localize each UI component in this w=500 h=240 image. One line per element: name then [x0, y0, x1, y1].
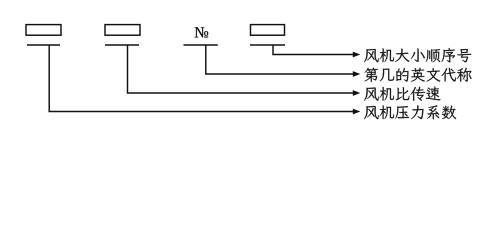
- label row4 风机压力系数: [364, 105, 456, 119]
- label row3 风机比传速: [364, 87, 441, 101]
- underline 1: [27, 44, 60, 46]
- underline 2: [105, 44, 139, 46]
- wire 1 (box1 to row4): [49, 45, 360, 114]
- label row1 风机大小顺序号: [364, 48, 471, 62]
- label row2 第几的英文代称: [364, 68, 471, 82]
- box 4: [251, 25, 285, 36]
- symbol No.: [195, 27, 209, 37]
- wire 4 (box4 to row1): [273, 45, 360, 57]
- underline 3 (No): [184, 44, 218, 46]
- box 2: [105, 25, 140, 36]
- wire 2 (box2 to row3): [128, 45, 361, 96]
- box 1: [26, 25, 61, 36]
- underline 4: [250, 44, 285, 46]
- wire 3 (No to row2): [206, 45, 360, 77]
